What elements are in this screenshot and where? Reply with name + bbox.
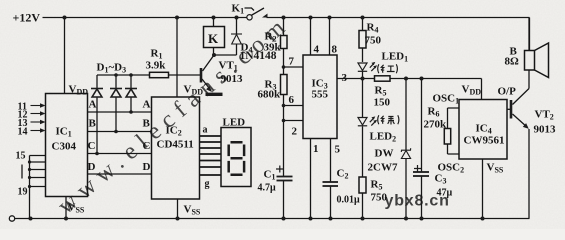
svg-text:B: B	[89, 118, 97, 130]
svg-text:D1~D3: D1~D3	[97, 62, 127, 75]
svg-text:555: 555	[312, 89, 329, 101]
svg-text:14: 14	[18, 127, 28, 138]
svg-text:O/P: O/P	[498, 86, 517, 98]
svg-text:A: A	[89, 99, 97, 111]
svg-text:3: 3	[342, 72, 348, 84]
svg-text:2: 2	[292, 126, 298, 138]
svg-text:9013: 9013	[534, 124, 557, 136]
svg-text:+12V: +12V	[13, 11, 41, 25]
svg-text:4.7μ: 4.7μ	[258, 183, 277, 194]
svg-text:15: 15	[16, 151, 26, 162]
svg-text:6: 6	[289, 94, 295, 106]
svg-text:150: 150	[374, 97, 391, 109]
svg-text:CD4511: CD4511	[157, 139, 194, 151]
svg-text:C304: C304	[52, 141, 77, 153]
svg-text:39k: 39k	[264, 42, 282, 54]
svg-text:270k: 270k	[424, 119, 448, 131]
svg-text:K: K	[208, 31, 219, 46]
svg-text:4: 4	[314, 44, 320, 56]
svg-text:D: D	[88, 161, 96, 173]
svg-text:8Ω: 8Ω	[505, 56, 520, 68]
svg-text:a: a	[203, 125, 208, 136]
svg-text:5: 5	[335, 144, 341, 156]
svg-text:9013: 9013	[221, 73, 244, 85]
svg-text:D: D	[143, 161, 151, 173]
svg-text:B: B	[143, 118, 151, 130]
svg-text:C: C	[88, 140, 96, 152]
svg-text:0.01μ: 0.01μ	[337, 195, 361, 206]
svg-text:7: 7	[289, 56, 295, 68]
svg-text:8: 8	[332, 44, 338, 56]
svg-text:3.9k: 3.9k	[146, 60, 167, 72]
svg-text:1: 1	[313, 143, 319, 155]
svg-text:19: 19	[18, 187, 28, 198]
svg-text:2CW7: 2CW7	[368, 162, 398, 174]
svg-text:CW9561: CW9561	[464, 135, 505, 147]
svg-text:DW: DW	[375, 148, 394, 160]
svg-text:750: 750	[365, 35, 382, 47]
svg-text:ybx8.cn: ybx8.cn	[385, 193, 450, 210]
svg-text:680k: 680k	[258, 89, 282, 101]
svg-text:C: C	[143, 140, 151, 152]
svg-text:g: g	[205, 179, 210, 190]
svg-text:A: A	[143, 99, 151, 111]
svg-text:LED: LED	[223, 117, 246, 129]
